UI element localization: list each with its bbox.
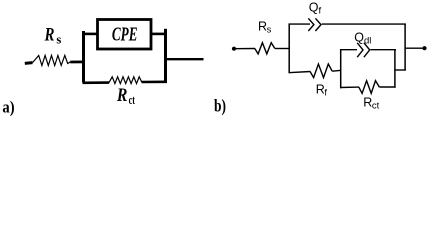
wire: Rs to left junction bar (circuit a) <box>70 61 84 64</box>
wire: input terminal stub (circuit a) <box>25 61 33 65</box>
resistor Rct (circuit a) zigzag <box>109 77 142 84</box>
wire: top branch right (circuit b) <box>322 23 406 25</box>
svg-text:f: f <box>319 5 322 16</box>
wire: inner top branch right (circuit b) <box>371 49 397 51</box>
node: inner left junction bar (circuit b) <box>340 49 342 88</box>
resistor Rs (circuit b) <box>255 43 275 54</box>
node: left parallel junction bar (circuit a) <box>82 31 85 83</box>
resistor Rf (circuit b) <box>310 64 332 78</box>
node: left junction bar (circuit b) <box>288 24 290 74</box>
svg-text:a): a) <box>2 98 14 117</box>
svg-text:CPE: CPE <box>112 25 138 46</box>
wire: Rs to left junction bar (circuit b) <box>275 48 290 50</box>
resistor Rct (circuit b) <box>359 81 380 94</box>
svg-text:b): b) <box>214 96 226 117</box>
node: right parallel junction bar (circuit a) <box>164 29 167 83</box>
CPE element box U1 (circuit a) <box>98 20 152 50</box>
wire: inner bottom branch left (circuit b) <box>340 86 359 88</box>
node: input terminal dot (circuit b) <box>232 47 236 51</box>
svg-text:s: s <box>267 24 272 35</box>
resistor Rs (circuit a) zigzag <box>33 55 71 65</box>
node: output terminal dot (circuit b) <box>422 46 426 50</box>
wire: Rf to inner left bar (circuit b) <box>332 69 341 72</box>
svg-text:ct: ct <box>372 100 380 111</box>
svg-text:Q: Q <box>354 30 364 44</box>
wire: inner parallel exit connector (circuit b) <box>394 69 406 71</box>
wire: bottom branch right (circuit a) <box>142 81 168 84</box>
wire: bottom branch left (circuit b) <box>289 72 311 73</box>
wire: bottom branch left (circuit a) <box>83 81 110 84</box>
svg-text:f: f <box>324 87 327 98</box>
wire: inner bottom branch right (circuit b) <box>379 86 395 88</box>
node: outer right junction bar (circuit b) <box>404 24 406 71</box>
wire: inner top branch left (circuit b) <box>340 49 357 51</box>
wire: top branch left (circuit b) <box>289 23 311 25</box>
svg-text:dl: dl <box>364 35 371 46</box>
svg-text:R: R <box>44 25 55 46</box>
wire: CPE box to right junction bar (circuit a) <box>152 33 167 36</box>
svg-text:Q: Q <box>309 0 319 14</box>
svg-text:R: R <box>116 85 127 106</box>
CPE Qf chevrons (circuit b) <box>308 18 321 31</box>
wire: output (circuit b) <box>405 47 425 49</box>
wire: input dot to Rs (circuit b) <box>234 48 255 50</box>
svg-text:s: s <box>56 31 61 46</box>
wire: output (circuit a) <box>166 58 204 60</box>
node: inner right junction bar (circuit b) <box>394 49 396 88</box>
CPE Qdl chevrons (circuit b) <box>357 43 370 57</box>
svg-text:ct: ct <box>129 92 136 107</box>
wire: top branch to CPE box (circuit a) <box>83 33 98 36</box>
